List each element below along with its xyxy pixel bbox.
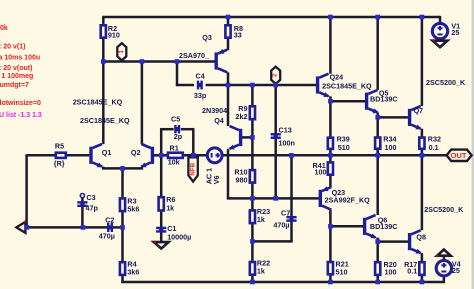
resistor R20 box: [375, 262, 380, 275]
svg-text:2N3904: 2N3904: [202, 106, 227, 115]
svg-text:980: 980: [236, 175, 248, 184]
wire R34 column: [376, 116, 379, 136]
svg-text:10k: 10k: [168, 158, 180, 167]
capacitor C3: [77, 202, 87, 206]
wire Q3 collector to Q4 collector: [227, 72, 230, 126]
svg-text:Q3: Q3: [202, 33, 212, 42]
svg-text:0.1: 0.1: [429, 143, 439, 152]
svg-text:0.1: 0.1: [407, 267, 417, 276]
svg-text:3k6: 3k6: [127, 267, 139, 276]
svg-text:BD139C: BD139C: [370, 222, 398, 231]
transistor Q6: [365, 215, 376, 238]
resistor R8 box: [225, 25, 230, 37]
wire Q2 collector: [141, 60, 144, 144]
wire R17 bottom stub: [421, 276, 424, 283]
ground above V4: [436, 250, 450, 258]
svg-text:Q1: Q1: [102, 148, 112, 157]
resistor R34 box: [375, 138, 380, 149]
resistor R23 box: [250, 210, 255, 223]
junction bottom rail R17: [420, 280, 425, 285]
svg-text:1k: 1k: [257, 267, 265, 276]
svg-text:R1: R1: [170, 143, 179, 152]
junction flag2/C13: [273, 83, 278, 88]
wire VAS emitter rail: [227, 197, 319, 200]
transistor Q5: [367, 90, 378, 113]
svg-text:2SC5200_K: 2SC5200_K: [424, 205, 464, 214]
wire node A branch down: [176, 60, 179, 86]
wire R21 bottom stub: [329, 275, 332, 283]
wire input vertical: [25, 154, 28, 228]
junction R39/R41: [328, 153, 333, 158]
net flag NFB: [188, 157, 197, 181]
junction top rail R8: [226, 15, 231, 20]
svg-text:Q24: Q24: [330, 73, 344, 82]
wire R9 bottom to Q4 base node: [251, 120, 254, 169]
svg-text:C4: C4: [196, 72, 205, 81]
net flag 1: [117, 43, 126, 60]
resistor R21 box: [328, 262, 333, 274]
wire R32 bottom stub: [421, 150, 424, 157]
junction C13 bottom: [273, 196, 278, 201]
svg-text:33p: 33p: [194, 91, 207, 100]
ground under V1: [433, 39, 448, 47]
resistor R1 box: [168, 153, 183, 158]
capacitor C7: [286, 217, 296, 221]
wire Q2 base to node: [154, 154, 167, 157]
svg-text:1k: 1k: [257, 215, 265, 224]
junction bottom rail R21: [328, 280, 333, 285]
ground under C1: [154, 241, 169, 249]
wire Q24 emitter to Q5 base: [329, 100, 365, 103]
wire R2 bottom to node A: [102, 39, 105, 63]
resistor R6 box: [159, 197, 164, 210]
wire R39-R41 link: [329, 150, 332, 161]
wire bottom -25V rail: [121, 281, 444, 284]
resistor R41 box: [328, 162, 333, 174]
wire R39 top stub: [329, 100, 332, 137]
wire R2 top stub: [102, 17, 105, 24]
junction R23/C7 bottom: [250, 239, 255, 244]
wire R20 bottom stub: [376, 276, 379, 283]
svg-text:2SC1845E_KQ: 2SC1845E_KQ: [73, 98, 123, 107]
resistor R10 box: [250, 170, 255, 183]
wire R9 top stub: [251, 84, 254, 105]
resistor R5 box: [56, 153, 66, 158]
transistor Q7: [410, 106, 421, 129]
wire R3 bottom stub: [121, 212, 124, 228]
resistor R17 box: [419, 262, 424, 275]
wire node A horizontal: [102, 60, 216, 63]
svg-text:Q8: Q8: [416, 233, 426, 242]
junction R9 top: [250, 83, 255, 88]
wire C3 upper lead: [81, 198, 84, 203]
svg-text:5k6: 5k6: [127, 205, 139, 214]
junction top rail Q24: [328, 15, 333, 20]
wire Q5 emitter lead: [376, 113, 379, 119]
junction R34 bottom: [375, 153, 380, 158]
svg-text:umdgt=7: umdgt=7: [0, 82, 29, 89]
junction Q5 emitter: [375, 115, 380, 120]
wire C1 to ground: [160, 232, 163, 242]
wire top +25V rail: [102, 16, 440, 19]
svg-text:470µ: 470µ: [99, 231, 115, 240]
junction C4/Q3 collector: [226, 83, 231, 88]
svg-text:: 20 v(1): : 20 v(1): [0, 44, 25, 51]
wire R4 top stub: [121, 226, 124, 261]
resistor R22 box: [250, 262, 255, 275]
svg-text:V6: V6: [212, 176, 221, 185]
junction top rail Q7: [420, 15, 425, 20]
svg-text:OUT: OUT: [451, 151, 467, 160]
svg-text:{R}: {R}: [54, 159, 65, 168]
svg-text:: 20 v(out): : 20 v(out): [0, 65, 32, 72]
wire R10 bottom stub: [251, 184, 254, 200]
capacitor C1: [156, 228, 166, 232]
wire R8 top stub: [227, 17, 230, 24]
voltage source V4: [436, 261, 451, 276]
svg-text:25: 25: [451, 28, 459, 37]
junction node A Q2 collector: [140, 59, 145, 64]
voltage source V6 (AC 1): [207, 148, 222, 163]
wire input horizontal: [26, 226, 108, 229]
wire Q1 emitter lead: [102, 167, 105, 170]
svg-text:910: 910: [108, 30, 120, 39]
wire Q8 emitter to R17: [421, 253, 424, 261]
wire VG right / main mid rail to OUT: [222, 154, 447, 157]
svg-text:100n: 100n: [279, 139, 295, 148]
wire V1 top lead: [439, 16, 442, 24]
wire Q7 collector: [421, 17, 424, 106]
svg-text:Q4: Q4: [214, 116, 224, 125]
wire Q2 emitter lead: [141, 167, 144, 170]
wire R6 to C1: [160, 212, 163, 228]
svg-text:a 10ms 100u: a 10ms 100u: [0, 55, 40, 62]
svg-text:U list -1.3 1.3: U list -1.3 1.3: [0, 112, 42, 119]
wire Q8 collector up: [421, 154, 424, 230]
svg-text:Q2: Q2: [131, 148, 141, 157]
svg-text:2SA970_: 2SA970_: [179, 51, 210, 60]
resistor R9 box: [250, 106, 255, 119]
junction Q24 emitter: [328, 99, 333, 104]
wire Q6 emitter lead: [376, 238, 379, 243]
wire R5 right to Q1 base: [67, 154, 90, 157]
wire C5 top left: [160, 128, 174, 131]
wire R22 bottom stub: [251, 276, 254, 283]
junction top rail Q5: [375, 15, 380, 20]
svg-text:NFB: NFB: [190, 162, 197, 175]
transistor Q2: [141, 144, 152, 167]
wire Q23 collector down: [329, 210, 332, 261]
net flag OUT: [447, 150, 472, 161]
wire R23 column: [251, 198, 254, 261]
wire V4 top stub: [443, 256, 446, 261]
junction node A branch: [175, 59, 180, 64]
capacitor C3 top circle: [80, 194, 84, 198]
wire C3 lower lead: [81, 206, 84, 229]
wire C13 bottom lead: [274, 138, 277, 200]
window edge strip: [472, 0, 474, 289]
transistor Q4: [230, 126, 241, 149]
svg-text:100: 100: [385, 267, 397, 276]
junction NFB node: [191, 153, 196, 158]
svg-text:470µ: 470µ: [273, 220, 289, 229]
svg-text:510: 510: [336, 267, 348, 276]
transistor Q3: [216, 50, 227, 73]
wire Q4 emitter down: [227, 149, 230, 200]
junction C2 right node: [120, 225, 125, 230]
resistor R39 box: [328, 138, 333, 149]
wire to C4 left: [176, 84, 194, 87]
junction Q23 collector: [328, 224, 333, 229]
wire Q5 emitter to Q7 base: [377, 116, 408, 119]
svg-text:C3: C3: [86, 193, 95, 202]
wire Q24 emitter lead: [329, 96, 332, 102]
svg-text:100: 100: [315, 168, 327, 177]
transistor Q23: [320, 187, 331, 210]
input port arrow: [16, 221, 26, 233]
junction Q6 emitter: [375, 239, 380, 244]
svg-text:33: 33: [234, 30, 242, 39]
svg-text:C2: C2: [105, 215, 114, 224]
junction R23 top: [250, 196, 255, 201]
resistor R32 box: [419, 138, 424, 149]
wire C5 top right: [181, 128, 195, 131]
svg-text:510: 510: [338, 143, 350, 152]
transistor Q1: [91, 144, 102, 167]
svg-text:100: 100: [385, 143, 397, 152]
voltage source V1: [432, 23, 447, 38]
svg-text:R5: R5: [55, 141, 64, 150]
junction R32 bottom: [420, 153, 425, 158]
transistor Q24: [318, 74, 329, 97]
transistor Q8: [410, 230, 421, 253]
resistor R2 box: [101, 25, 106, 37]
wire C4 right to Q24 base: [206, 84, 316, 87]
wire R1 right segment: [184, 154, 207, 157]
wire Q4 base lead: [242, 136, 254, 139]
svg-text:25: 25: [452, 266, 460, 275]
wire R6 top: [160, 154, 163, 196]
svg-text:10000µ: 10000µ: [167, 233, 191, 242]
wire R34 bottom stub: [376, 150, 379, 157]
junction bottom rail R20: [375, 280, 380, 285]
capacitor C5: [175, 125, 179, 133]
wire R41 to Q23 emitter: [329, 176, 332, 187]
wire Q6 collector up: [376, 154, 379, 215]
wire C5 right leg: [192, 129, 195, 156]
capacitor C2: [108, 223, 112, 232]
svg-text:47p: 47p: [86, 204, 99, 213]
capacitor C4: [198, 81, 202, 90]
wire V4 bottom stub: [443, 276, 446, 283]
wire Q5 collector: [376, 17, 379, 90]
wire Q1 collector: [102, 60, 105, 144]
svg-text:BD139C: BD139C: [370, 95, 398, 104]
svg-text:2SC1845E_KQ: 2SC1845E_KQ: [80, 116, 130, 125]
resistor R4 box: [120, 262, 125, 275]
wire C5 left leg: [160, 129, 163, 156]
wire R20 column: [376, 241, 379, 262]
wire R8 bottom to Q3 emitter: [227, 39, 230, 50]
junction tail: [120, 166, 125, 171]
wire emitter join: [102, 167, 143, 170]
wire C2 right to R3/R4 node: [113, 226, 124, 229]
wire R5 left lead: [27, 154, 55, 157]
junction node A R2: [101, 59, 106, 64]
svg-text:2SC5200_K: 2SC5200_K: [426, 78, 466, 87]
svg-text:2k2: 2k2: [236, 112, 248, 121]
svg-text:C13: C13: [279, 125, 292, 134]
svg-text:C5: C5: [171, 115, 180, 124]
svg-text:lotwinsize=0: lotwinsize=0: [0, 100, 41, 107]
svg-text:2p: 2p: [174, 132, 183, 141]
junction R1 left: [159, 153, 164, 158]
svg-text:1k: 1k: [166, 203, 174, 212]
net flag 2: [271, 67, 280, 84]
wire C7 to R23 node: [251, 240, 291, 243]
svg-text:l 1 100meg: l 1 100meg: [0, 73, 33, 80]
svg-text:2SC1845E_KQ: 2SC1845E_KQ: [322, 81, 372, 90]
junction C3 bottom: [81, 225, 86, 230]
junction bottom rail R22: [250, 280, 255, 285]
wire Q24 collector: [329, 17, 332, 74]
svg-text:Q7: Q7: [414, 106, 424, 115]
wire C13 top lead: [274, 84, 277, 134]
wire tail down to R3: [121, 168, 124, 197]
wire C7 top lead: [290, 154, 293, 217]
svg-text:2SA992F_KQ: 2SA992F_KQ: [325, 195, 371, 204]
junction input corner: [25, 225, 30, 230]
capacitor C13: [271, 134, 281, 138]
wire Q7 emitter to R32: [421, 129, 424, 137]
wire C7 bottom lead: [290, 221, 293, 243]
junction Q4 base: [250, 135, 255, 140]
svg-text:C7: C7: [281, 209, 290, 218]
resistor R3 box: [120, 198, 125, 211]
wire Q6 emitter to Q8 base: [377, 240, 408, 243]
wire R4 bottom stub: [121, 276, 124, 283]
wire Q23 collector to Q6 base: [329, 225, 363, 228]
junction C7 tap: [289, 153, 294, 158]
svg-text:0k: 0k: [0, 25, 8, 32]
